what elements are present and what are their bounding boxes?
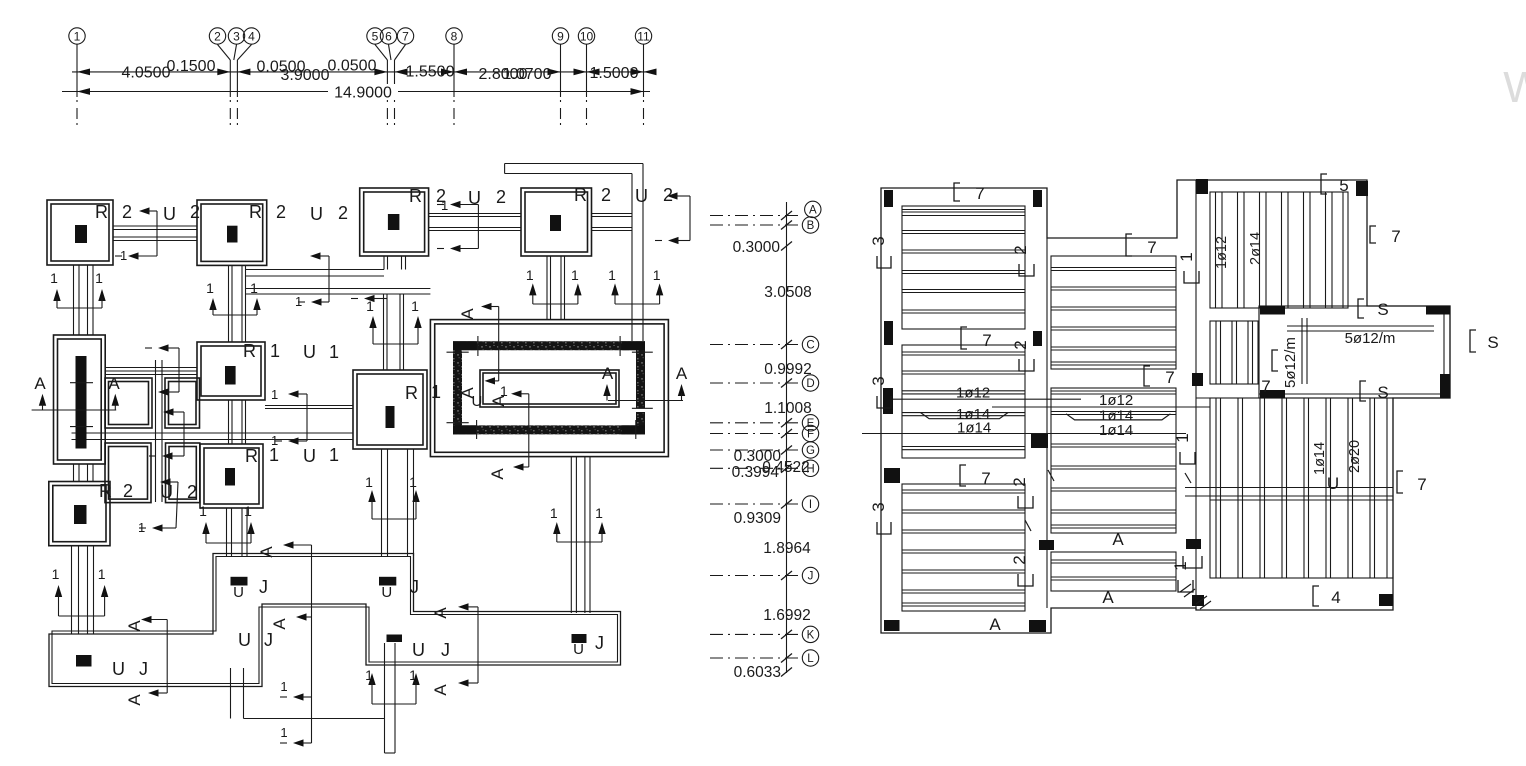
ring corner block BL xyxy=(453,425,477,434)
svg-text:A: A xyxy=(989,615,1001,634)
svg-text:1: 1 xyxy=(271,387,278,402)
column in F2 xyxy=(227,226,238,243)
svg-text:0.1500: 0.1500 xyxy=(167,58,216,75)
svg-text:7: 7 xyxy=(975,184,984,203)
svg-text:U: U xyxy=(163,204,176,224)
landing rectangle xyxy=(1259,306,1450,398)
leader arrows F1-F2 xyxy=(139,207,150,214)
svg-text:1: 1 xyxy=(608,267,616,283)
strip below stair xyxy=(570,457,572,613)
strip wall to R2bl xyxy=(73,464,75,482)
svg-text:U: U xyxy=(412,640,425,660)
svg-text:S: S xyxy=(1377,383,1388,402)
svg-text:1: 1 xyxy=(329,445,339,465)
svg-text:1.0700: 1.0700 xyxy=(503,66,552,83)
leader mid U1 row xyxy=(288,390,299,397)
svg-text:1.5500: 1.5500 xyxy=(406,64,455,81)
beam below F2-F3 upper xyxy=(246,269,384,271)
svg-text:J: J xyxy=(264,630,273,650)
bottom strip footing zigzag outline outer xyxy=(49,554,621,687)
svg-text:2ø20: 2ø20 xyxy=(1347,440,1363,473)
svg-text:0.3000: 0.3000 xyxy=(733,239,781,256)
strip R1a to R1b xyxy=(228,400,230,444)
svg-text:A: A xyxy=(431,684,450,696)
small square BR xyxy=(166,443,200,503)
svg-text:1: 1 xyxy=(1177,252,1196,261)
svg-text:1: 1 xyxy=(50,270,58,286)
svg-text:7: 7 xyxy=(1261,377,1270,396)
svg-text:1ø14: 1ø14 xyxy=(1099,422,1133,439)
slab panel RB-P2 vertical bars xyxy=(1210,398,1393,578)
svg-text:2: 2 xyxy=(1011,245,1030,254)
svg-text:R: R xyxy=(245,446,258,466)
slab panel LB-P3 xyxy=(902,484,1025,611)
svg-text:7: 7 xyxy=(1417,475,1426,494)
svg-text:2: 2 xyxy=(190,202,200,222)
svg-text:A: A xyxy=(257,546,276,558)
svg-text:1ø12: 1ø12 xyxy=(956,385,990,402)
svg-text:1: 1 xyxy=(52,566,60,582)
vertical dimension line xyxy=(786,202,788,673)
svg-text:F: F xyxy=(807,429,814,441)
column in R1b xyxy=(225,468,235,486)
bracket S label landing top xyxy=(1358,299,1364,318)
svg-text:2: 2 xyxy=(601,185,611,205)
svg-text:1: 1 xyxy=(269,445,279,465)
svg-text:14.9000: 14.9000 xyxy=(334,85,392,102)
strip below central square xyxy=(381,449,383,556)
svg-text:3.0508: 3.0508 xyxy=(764,284,811,301)
svg-text:U: U xyxy=(310,204,323,224)
tick marks on vertical dim line xyxy=(781,211,792,220)
stair inner rectangle xyxy=(480,370,619,407)
svg-text:2: 2 xyxy=(1010,555,1029,564)
column in right strip xyxy=(572,634,587,643)
svg-text:3: 3 xyxy=(869,236,888,245)
dash-dot level lines xyxy=(710,215,800,217)
svg-text:0.3994: 0.3994 xyxy=(732,464,780,481)
svg-text:1ø12: 1ø12 xyxy=(1099,392,1133,409)
svg-text:1: 1 xyxy=(95,270,103,286)
svg-text:J: J xyxy=(441,640,450,660)
column in R1a xyxy=(225,366,236,385)
svg-text:1.8964: 1.8964 xyxy=(763,540,811,557)
strip below F1 xyxy=(73,265,75,335)
svg-text:9: 9 xyxy=(557,30,564,44)
bracket S label far right xyxy=(1470,330,1476,352)
svg-text:4: 4 xyxy=(248,30,255,44)
bent bar left block xyxy=(921,413,1008,419)
svg-text:2: 2 xyxy=(276,202,286,222)
svg-text:4: 4 xyxy=(1331,588,1340,607)
svg-text:5ø12/m: 5ø12/m xyxy=(1282,337,1299,388)
svg-text:7: 7 xyxy=(1147,238,1156,257)
strip F2 to R1a xyxy=(228,265,230,342)
bracket 7 label MB low xyxy=(1144,366,1150,386)
svg-text:1: 1 xyxy=(441,198,448,213)
svg-text:1: 1 xyxy=(270,341,280,361)
svg-text:J: J xyxy=(595,633,604,653)
leader chain in cluster c xyxy=(160,478,171,485)
svg-text:1: 1 xyxy=(571,267,579,283)
strip below R1b xyxy=(226,508,228,556)
slab panel MB-P3 xyxy=(1051,552,1176,591)
svg-text:1: 1 xyxy=(280,725,287,740)
long distribution bar upper xyxy=(888,398,1081,400)
svg-text:4.0500: 4.0500 xyxy=(122,65,171,82)
column in F1 xyxy=(75,225,87,243)
svg-text:J: J xyxy=(808,571,814,583)
footing R1b xyxy=(200,444,263,508)
ring ticks xyxy=(477,336,479,356)
svg-text:1.6992: 1.6992 xyxy=(763,607,810,624)
footing R2 F4 xyxy=(521,188,592,256)
svg-text:R: R xyxy=(409,186,422,206)
svg-text:1: 1 xyxy=(500,383,508,399)
wall bar tick top xyxy=(70,382,93,384)
stair leader to bottom xyxy=(511,390,522,397)
ring corner block TL xyxy=(453,341,477,350)
svg-text:G: G xyxy=(806,445,815,457)
bracket 4 label bottom xyxy=(1313,586,1319,606)
slab panel MB-P2 xyxy=(1051,388,1176,533)
column bottom middle strip xyxy=(387,635,403,643)
svg-text:1: 1 xyxy=(98,566,106,582)
svg-text:R: R xyxy=(574,185,587,205)
svg-text:U: U xyxy=(112,659,125,679)
svg-text:2ø14: 2ø14 xyxy=(1248,232,1264,265)
cluster vertical beam lines xyxy=(155,360,157,502)
svg-text:A: A xyxy=(108,374,120,393)
svg-text:1: 1 xyxy=(365,474,373,490)
dimension line row 1 y=72 xyxy=(72,71,655,73)
svg-text:A: A xyxy=(602,364,614,383)
svg-text:1: 1 xyxy=(280,679,287,694)
svg-text:1: 1 xyxy=(120,248,127,263)
long bars bottom right block xyxy=(1185,487,1393,489)
slab panel LB-P1 xyxy=(902,206,1025,329)
svg-text:R: R xyxy=(249,202,262,222)
dash-dot axis tails below dimension lines xyxy=(76,100,78,127)
svg-text:8: 8 xyxy=(451,30,458,44)
bracket 7 label LB top xyxy=(954,183,960,201)
svg-text:7: 7 xyxy=(982,331,991,350)
stair hatched ring xyxy=(453,341,645,434)
svg-text:1: 1 xyxy=(206,280,214,296)
descender connector line xyxy=(244,718,385,720)
svg-text:U: U xyxy=(1327,474,1339,493)
level bubbles A-L xyxy=(805,201,821,217)
central footing R1c xyxy=(353,370,427,449)
strip beam F4 to duct xyxy=(592,213,633,215)
svg-text:U: U xyxy=(573,641,584,658)
svg-text:1ø14: 1ø14 xyxy=(1312,442,1328,475)
svg-text:R: R xyxy=(95,202,108,222)
svg-text:1: 1 xyxy=(431,382,441,402)
footing R2 F3 xyxy=(360,188,429,256)
svg-text:D: D xyxy=(806,378,814,390)
strip below R2bl xyxy=(71,546,73,634)
small square BL xyxy=(105,443,151,503)
landing rebar vertical xyxy=(1301,318,1303,384)
footing R2bl bottom-left xyxy=(49,482,110,546)
svg-text:U: U xyxy=(303,446,316,466)
svg-text:1: 1 xyxy=(411,298,419,314)
svg-text:A: A xyxy=(1102,588,1114,607)
column in bottom left strip xyxy=(76,655,92,667)
slab panel LB-P2 xyxy=(902,345,1025,458)
column in F3 xyxy=(388,214,400,230)
svg-text:1: 1 xyxy=(409,474,417,490)
svg-text:2: 2 xyxy=(214,30,221,44)
long distribution bar mid xyxy=(992,406,1210,408)
svg-text:B: B xyxy=(807,220,815,232)
long distribution bar lower xyxy=(862,433,1186,435)
svg-text:K: K xyxy=(807,629,815,641)
svg-text:1: 1 xyxy=(271,433,278,448)
shear wall black bar xyxy=(76,356,87,449)
ring right band gap xyxy=(636,409,645,412)
duct hook top right xyxy=(505,163,643,165)
svg-text:1: 1 xyxy=(199,503,207,519)
tall column block left edge mid xyxy=(883,388,893,414)
ring corner block BR xyxy=(621,425,645,434)
svg-text:1: 1 xyxy=(653,267,661,283)
wall footing left xyxy=(54,335,106,464)
svg-text:U: U xyxy=(635,186,648,206)
bracket 7 label LB mid xyxy=(961,327,967,349)
svg-text:1.1008: 1.1008 xyxy=(764,400,811,417)
descender strips below left strip xyxy=(230,668,232,719)
svg-text:A: A xyxy=(458,308,477,320)
bracket 7 label RB low xyxy=(1397,471,1403,493)
leader chain in cluster a xyxy=(145,347,152,349)
slash marks right plan xyxy=(1025,520,1031,531)
beam R1a to central xyxy=(265,405,353,407)
column mid strip a xyxy=(231,577,248,586)
svg-text:10: 10 xyxy=(580,30,594,44)
stair pit outer rectangle xyxy=(430,320,668,457)
strip below F3 xyxy=(383,256,385,270)
corner bracket mark bottom-left RB xyxy=(1183,556,1202,568)
svg-text:A: A xyxy=(34,374,46,393)
leader chain in cluster b xyxy=(163,408,174,415)
column in R2bl xyxy=(74,505,87,524)
svg-text:A: A xyxy=(676,364,688,383)
svg-text:R: R xyxy=(243,341,256,361)
small square TR xyxy=(165,378,200,428)
svg-text:3: 3 xyxy=(869,502,888,511)
svg-text:1: 1 xyxy=(526,267,534,283)
svg-text:L: L xyxy=(807,653,814,665)
svg-text:1: 1 xyxy=(138,520,145,535)
svg-text:1ø14: 1ø14 xyxy=(957,420,991,437)
svg-text:11: 11 xyxy=(637,30,650,44)
svg-text:2: 2 xyxy=(122,202,132,222)
svg-text:1: 1 xyxy=(250,280,258,296)
small square TL xyxy=(105,378,152,428)
svg-text:5ø12/m: 5ø12/m xyxy=(1345,330,1396,347)
svg-text:U: U xyxy=(472,393,483,410)
strip beam F3-F4 xyxy=(429,213,521,215)
bracket S label landing bottom xyxy=(1360,381,1366,401)
svg-text:A: A xyxy=(809,204,817,216)
black column blocks right plan xyxy=(884,190,893,207)
svg-text:3: 3 xyxy=(233,30,240,44)
strip beam F1-F2 xyxy=(113,225,197,227)
svg-text:7: 7 xyxy=(981,469,990,488)
grid line stubs below bubbles xyxy=(76,45,78,61)
svg-text:7: 7 xyxy=(402,30,409,44)
svg-text:A: A xyxy=(125,694,144,706)
svg-text:7: 7 xyxy=(1391,227,1400,246)
svg-text:A: A xyxy=(1112,530,1124,549)
svg-text:2: 2 xyxy=(123,481,133,501)
svg-text:3.9000: 3.9000 xyxy=(281,67,330,84)
svg-text:2: 2 xyxy=(1011,340,1030,349)
footing R1a xyxy=(197,342,265,400)
svg-text:R: R xyxy=(405,383,418,403)
wall bar tick bottom xyxy=(70,426,93,428)
bent bar mid block xyxy=(1066,414,1170,420)
svg-text:2: 2 xyxy=(496,187,506,207)
strip below F4 into stair xyxy=(546,256,548,319)
svg-text:J: J xyxy=(139,659,148,679)
svg-text:W: W xyxy=(1503,63,1526,112)
svg-text:U: U xyxy=(303,342,316,362)
bracket 7 label LB low xyxy=(960,465,966,486)
footing R2 F2 xyxy=(197,200,267,265)
svg-text:1.5000: 1.5000 xyxy=(590,65,639,82)
svg-text:5: 5 xyxy=(372,30,379,44)
svg-text:1: 1 xyxy=(329,342,339,362)
right plan outer boundary xyxy=(881,180,1450,633)
beam wall to R1a xyxy=(105,367,197,369)
right plan block separators xyxy=(1046,238,1048,608)
svg-text:1: 1 xyxy=(1171,561,1190,570)
svg-text:1: 1 xyxy=(74,30,81,44)
svg-text:J: J xyxy=(259,577,268,597)
svg-text:J: J xyxy=(410,577,419,597)
svg-text:2: 2 xyxy=(1010,477,1029,486)
svg-text:A: A xyxy=(125,620,144,632)
svg-text:1: 1 xyxy=(595,505,603,521)
grid bubbles 1-11 top xyxy=(69,28,85,44)
column in R1c xyxy=(386,406,395,428)
slab panel RB-P1 vertical bars xyxy=(1210,192,1348,308)
footing R2 F1 xyxy=(47,200,113,265)
small panel left of landing xyxy=(1210,321,1258,384)
svg-text:1: 1 xyxy=(244,503,252,519)
leader arrow at F3 strip xyxy=(351,298,358,300)
svg-text:1: 1 xyxy=(1173,433,1192,442)
narrow descender rect xyxy=(384,643,386,753)
beam through cluster xyxy=(72,432,354,434)
leader arrows right of F4 xyxy=(667,192,678,199)
svg-text:5: 5 xyxy=(1339,176,1348,195)
svg-text:6: 6 xyxy=(385,30,392,44)
svg-text:S: S xyxy=(1487,333,1498,352)
svg-text:1: 1 xyxy=(550,505,558,521)
bracket 7 label MB top xyxy=(1126,234,1132,256)
beam below F2-F3 lower xyxy=(246,288,430,290)
svg-text:U: U xyxy=(381,584,392,601)
svg-text:I: I xyxy=(809,499,812,511)
svg-text:0.9992: 0.9992 xyxy=(764,361,811,378)
svg-text:1: 1 xyxy=(295,294,302,309)
slab panel MB-P1 xyxy=(1051,256,1176,369)
bracket 7 label RB top xyxy=(1370,226,1376,243)
strip beam to central square xyxy=(383,294,385,370)
bottom strip footing zigzag outline inner xyxy=(52,557,618,684)
svg-text:7: 7 xyxy=(1165,368,1174,387)
leader arrows F3-F4 xyxy=(437,204,444,206)
landing rebar horizontal xyxy=(1287,325,1434,327)
leader arrows below F2 xyxy=(310,252,321,259)
svg-text:0.0500: 0.0500 xyxy=(328,58,377,75)
dim arrows row 1 xyxy=(77,69,90,76)
svg-text:2: 2 xyxy=(338,203,348,223)
svg-text:3: 3 xyxy=(869,376,888,385)
svg-text:0.9309: 0.9309 xyxy=(734,510,781,527)
overall dimension line y=91.5 xyxy=(62,91,650,93)
svg-text:A: A xyxy=(431,607,450,619)
column mid strip b xyxy=(379,577,396,586)
svg-text:A: A xyxy=(270,618,289,630)
bracket 5 label top xyxy=(1321,174,1327,194)
ring corner block TR xyxy=(621,341,645,350)
svg-text:0.6033: 0.6033 xyxy=(734,664,781,681)
svg-text:U: U xyxy=(238,630,251,650)
svg-text:1ø12: 1ø12 xyxy=(1214,236,1230,269)
svg-text:U: U xyxy=(233,584,244,601)
svg-text:S: S xyxy=(1377,300,1388,319)
svg-text:A: A xyxy=(488,468,507,480)
column in F4 xyxy=(550,215,561,231)
svg-text:C: C xyxy=(806,340,814,352)
extension lines at grid axes xyxy=(76,60,78,97)
